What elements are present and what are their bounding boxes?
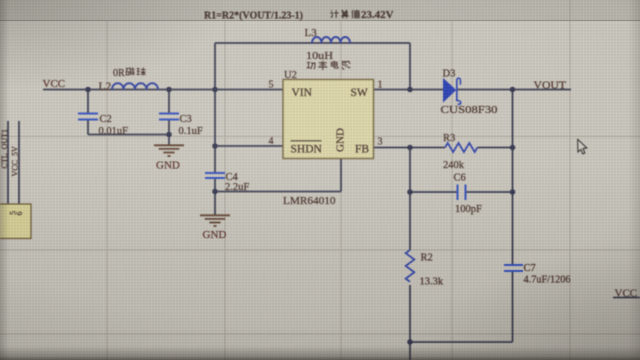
mouse cursor [578, 139, 587, 154]
label 计 (calc note, char 1) [330, 10, 338, 18]
label 珠 (ferrite bead note, char 2) [137, 68, 146, 76]
capacitor C3 [159, 114, 179, 120]
junction C6 left [407, 189, 413, 195]
connector J? body (left edge, partially visible) [0, 204, 31, 239]
wire output column upper (VOUT to C7) [512, 90, 514, 265]
wire SHDN pin [215, 145, 283, 147]
junction branch/rail [212, 87, 218, 93]
op-amp/regulator U2 body [283, 80, 374, 159]
inductor L3 [312, 37, 350, 43]
wire left branch vertical upper (top rail to C4) [214, 43, 216, 173]
wire left connector pin 5 [7, 121, 9, 204]
wire IC ground row [215, 191, 341, 193]
junction C2/rail [85, 87, 91, 93]
capacitor C4 [205, 173, 225, 178]
junction C3 bottom [166, 132, 172, 138]
wire top rail through L3 [215, 42, 410, 44]
ground symbol under C4 [200, 215, 230, 226]
junction C4 bottom [212, 189, 218, 195]
label 功 (power inductor note, char 1) [307, 62, 316, 69]
junction R3 right [510, 145, 516, 151]
wire C6 left [410, 191, 457, 193]
wire left connector pin 6 [18, 121, 20, 204]
label 感 (power inductor note, char 4) [342, 61, 350, 70]
ground symbol under C3 [154, 145, 184, 156]
wire R3 right to output column [478, 147, 513, 149]
capacitor C2 [78, 114, 98, 120]
wire VCC rail to VIN [43, 89, 283, 91]
junction FB node [407, 145, 413, 151]
capacitor C7 [504, 265, 523, 271]
top darker band of photographed screen [0, 0, 640, 21]
wire diode cathode to VOUT [457, 89, 571, 91]
wire VCC right power port underline [613, 297, 640, 299]
junction C6 right [510, 189, 516, 195]
label 值 (calc note, char 3) [352, 10, 360, 18]
wire output column lower (C7 to bottom) [512, 272, 514, 342]
resistor R3 [445, 143, 477, 152]
junction SHDN branch [212, 143, 218, 149]
wire SW pin to diode anode [374, 89, 444, 91]
wire IC GND pin vertical [340, 159, 342, 192]
junction VOUT node [510, 87, 516, 93]
label 磁 (ferrite bead note, char 1) [126, 67, 135, 75]
label 电 (power inductor note, char 3) [331, 61, 338, 68]
resistor R2 [406, 250, 415, 282]
junction bottom return [407, 339, 413, 345]
wire GND stem under C3 [168, 135, 170, 146]
junction C3/rail [166, 87, 172, 93]
wire FB column lower (R2 bottom to page bottom) [409, 285, 411, 360]
diode D3 (schottky) [444, 78, 461, 104]
wire bottom return [410, 341, 513, 343]
wire FB pin to R3 [374, 147, 446, 149]
wire left branch vertical lower (C4 to GND) [214, 179, 216, 216]
wire C3 top stub [168, 90, 170, 114]
wire FB column upper (FB to R2 top) [409, 148, 411, 251]
wire C2 bottom stub [87, 120, 89, 135]
wire C6 right [466, 191, 513, 193]
label 算 (calc note, char 2) [341, 10, 349, 18]
junction SW node [407, 87, 413, 93]
inductor L2 [112, 83, 158, 89]
wire C2 top stub [87, 90, 89, 114]
wire C2-C3 bottom rail [88, 134, 169, 136]
wire SW node vertical [409, 43, 411, 90]
wire C3 bottom stub [168, 120, 170, 135]
SHDN overline [291, 140, 322, 142]
label 率 (power inductor note, char 2) [318, 61, 327, 71]
capacitor C6 [458, 185, 466, 201]
